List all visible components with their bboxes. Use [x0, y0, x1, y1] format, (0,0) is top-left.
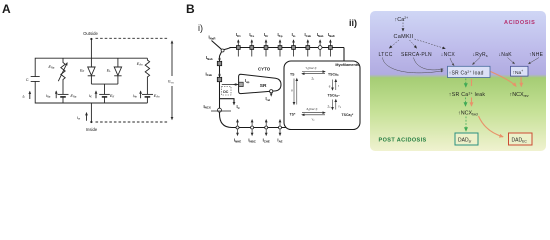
svg-text:EAn: EAn: [154, 94, 160, 99]
svg-text:IK: IK: [89, 94, 92, 99]
svg-text:INaK: INaK: [328, 32, 336, 38]
svg-text:IK1: IK1: [236, 32, 241, 38]
svg-text:TSCa3*: TSCa3*: [342, 113, 354, 118]
svg-text:INaR: INaR: [209, 35, 217, 41]
svg-text:ICHE: ICHE: [263, 138, 270, 144]
svg-text:Ito: Ito: [292, 32, 296, 38]
svg-text:INBC: INBC: [248, 138, 256, 144]
svg-text:↑SR Ca2+ load: ↑SR Ca2+ load: [449, 70, 484, 77]
svg-text:IKs: IKs: [249, 32, 254, 38]
svg-text:Inside: Inside: [86, 127, 98, 132]
svg-text:ACIDOSIS: ACIDOSIS: [504, 20, 535, 26]
svg-text:Myofilaments: Myofilaments: [335, 63, 359, 67]
svg-text:ii): ii): [349, 18, 357, 28]
svg-text:EK: EK: [80, 69, 84, 74]
svg-text:EL: EL: [107, 69, 111, 74]
svg-text:INHE: INHE: [234, 138, 241, 144]
svg-text:Y1[Ca2+]n: Y1[Ca2+]n: [306, 66, 317, 71]
svg-text:Outside: Outside: [83, 31, 98, 36]
svg-text:↓RyRs: ↓RyRs: [473, 52, 488, 58]
svg-text:ICab: ICab: [206, 71, 213, 77]
svg-text:↓NCX: ↓NCX: [441, 52, 456, 58]
svg-text:DC: DC: [223, 90, 229, 94]
svg-text:↑SR Ca2+ leak: ↑SR Ca2+ leak: [449, 91, 486, 98]
svg-text:Iup: Iup: [245, 78, 250, 84]
svg-text:ENa: ENa: [71, 94, 77, 99]
svg-text:INab: INab: [317, 32, 324, 38]
svg-text:LTCC: LTCC: [379, 52, 393, 58]
svg-text:CYTO: CYTO: [258, 67, 271, 72]
svg-text:↑NHE: ↑NHE: [529, 52, 544, 58]
svg-text:SERCA-PLN: SERCA-PLN: [401, 52, 432, 58]
svg-text:C: C: [26, 77, 29, 82]
svg-text:↓NaK: ↓NaK: [499, 52, 513, 58]
svg-text:IAn: IAn: [133, 94, 138, 99]
svg-text:SR: SR: [260, 83, 267, 89]
svg-text:Em: Em: [168, 79, 174, 85]
svg-text:IKp: IKp: [278, 32, 283, 38]
svg-text:EAn: EAn: [137, 62, 143, 67]
svg-text:ICab: ICab: [304, 32, 311, 38]
svg-text:Irel: Irel: [266, 96, 271, 102]
svg-text:EK: EK: [110, 94, 114, 99]
svg-text:INab: INab: [206, 55, 213, 61]
svg-text:i): i): [198, 23, 203, 33]
svg-text:POST ACIDOSIS: POST ACIDOSIS: [379, 137, 427, 143]
svg-text:INa: INa: [46, 94, 51, 99]
svg-text:A: A: [2, 2, 11, 16]
svg-text:CaMKII: CaMKII: [394, 34, 414, 40]
svg-text:TS*: TS*: [290, 112, 296, 116]
svg-text:INCX: INCX: [204, 104, 211, 110]
svg-text:TS: TS: [290, 72, 295, 76]
svg-text:TSCa3~: TSCa3~: [328, 94, 340, 99]
svg-text:B: B: [186, 2, 195, 16]
svg-text:IAE: IAE: [277, 138, 282, 144]
